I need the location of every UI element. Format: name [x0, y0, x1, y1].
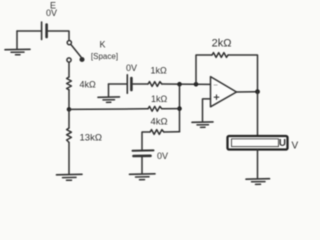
wire feedback top and riser right to output node [228, 55, 258, 92]
wire node E down to voltmeter [257, 92, 259, 136]
svg-text:0V: 0V [157, 151, 168, 161]
wire R2 to ground GND2 [68, 142, 70, 174]
wire node A to resistor 13k [68, 109, 70, 128]
wire row 3 corner to resistor 4k row 3 [142, 132, 150, 151]
node E (output junction) [255, 89, 260, 94]
node D (bus junction row 2) [177, 106, 182, 111]
wire GND1 to battery E [17, 30, 41, 32]
wire feedback riser left (node C up) [196, 55, 212, 84]
wire GND3 to battery B2 [109, 83, 127, 85]
wire battery E to switch K [47, 31, 69, 40]
node A (junction) [67, 107, 72, 112]
voltmeter V [228, 136, 288, 150]
wire battery B2 to resistor 1k row 1 [131, 83, 148, 85]
wire R5 to bus [164, 131, 180, 133]
battery E [42, 22, 47, 40]
svg-text:0V: 0V [46, 8, 57, 18]
ground GND6 (below voltmeter) [246, 179, 270, 185]
wire R1 to node A [68, 90, 70, 110]
resistor R1 4kOhm (vertical) [67, 77, 72, 90]
resistor R2 13kOhm (vertical) [67, 128, 72, 142]
ground GND5 (below op-amp) [192, 122, 213, 128]
wire switch K to resistor 4k [68, 62, 70, 77]
wire battery B3 to ground GND4 [141, 156, 143, 174]
wire voltmeter to ground GND6 [257, 150, 259, 179]
svg-text:0V: 0V [126, 63, 137, 73]
svg-text:V: V [292, 141, 299, 152]
battery B2 (0V, row 1) [127, 75, 131, 93]
svg-text:13kΩ: 13kΩ [80, 133, 102, 144]
wire bus node B down to row 3 [179, 84, 181, 132]
wire op-amp output to node E [237, 91, 258, 93]
svg-text:K: K [99, 40, 105, 50]
svg-text:1kΩ: 1kΩ [151, 94, 168, 104]
resistor R5 4kOhm (row 3) [150, 130, 164, 135]
wire R3 to op-amp input (row 1) [162, 83, 211, 85]
ground GND4 (below battery B3) [130, 174, 156, 180]
battery B3 (0V, bottom, vertical) [133, 150, 154, 156]
ground GND1 (left of battery E) [5, 31, 30, 55]
svg-text:4kΩ: 4kΩ [80, 80, 97, 90]
svg-text:1kΩ: 1kΩ [151, 66, 168, 76]
wire node A to resistor 1k (row 2) [69, 108, 148, 111]
node C (feedback junction row 1) [194, 82, 199, 87]
resistor R4 1kOhm (row 2) [148, 106, 162, 111]
svg-text:4kΩ: 4kΩ [151, 117, 168, 128]
op-amp U1 [211, 77, 237, 107]
ground GND2 (below 13k) [57, 174, 83, 180]
switch K [67, 41, 84, 63]
ground GND3 (left of battery B2, row 1) [98, 84, 120, 102]
wire R4 to bus [162, 108, 180, 110]
resistor R6 2kOhm (feedback) [212, 53, 228, 58]
svg-text:[Space]: [Space] [91, 52, 118, 61]
node B (bus junction row 1) [177, 82, 182, 87]
svg-text:U: U [279, 138, 286, 149]
resistor R3 1kOhm (row 1) [148, 82, 162, 87]
svg-text:2kΩ: 2kΩ [212, 38, 232, 50]
wire op-amp + input to ground GND5 [203, 99, 211, 122]
